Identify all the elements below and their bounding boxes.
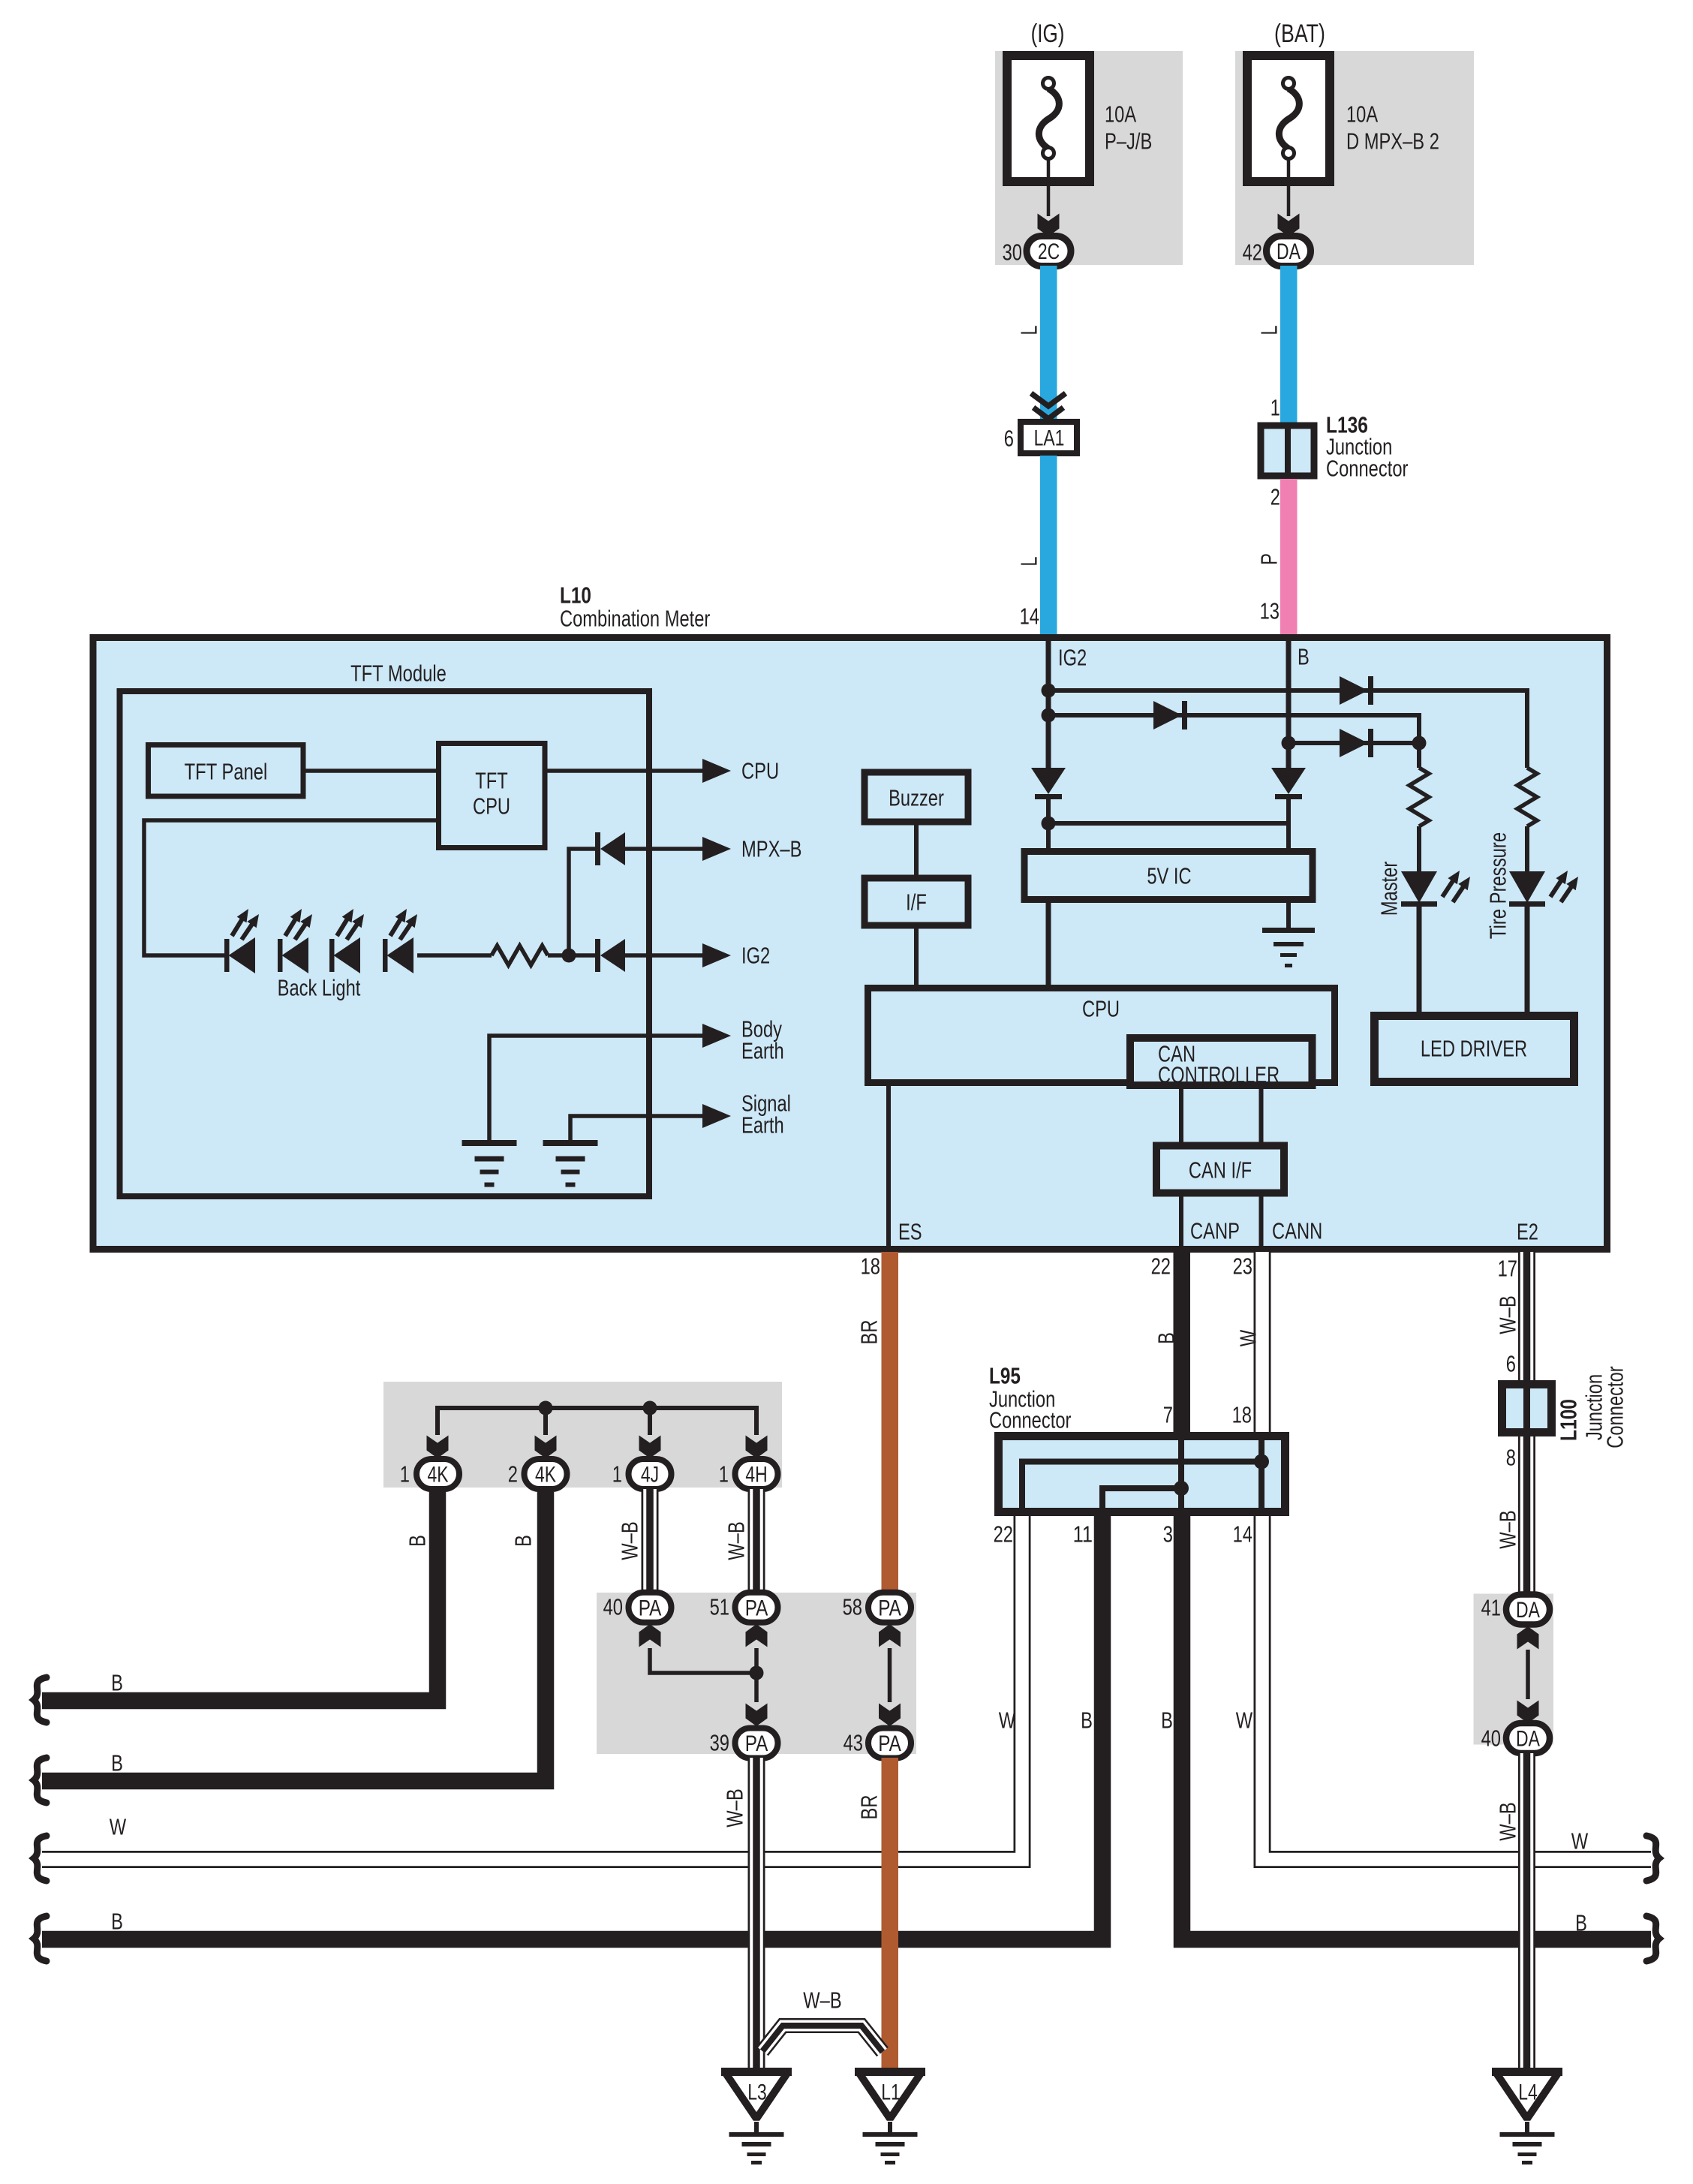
wire stub to 4J xyxy=(648,1408,652,1435)
connector terminal 4K pin1 xyxy=(416,1459,459,1489)
wire 5V IC to CPU xyxy=(1046,900,1051,986)
svg-text:L100: L100 xyxy=(1556,1399,1582,1441)
svg-text:30: 30 xyxy=(1003,239,1022,266)
wire fuse (IG) 10A P-J/B lead xyxy=(1047,158,1051,216)
wire signal earth xyxy=(570,1116,705,1140)
svg-text:22: 22 xyxy=(994,1521,1013,1548)
svg-text:40: 40 xyxy=(603,1594,623,1620)
arrow MPX-B xyxy=(702,837,731,861)
svg-text:8: 8 xyxy=(1506,1445,1516,1471)
wire tire resistor to LED xyxy=(1525,826,1529,871)
wire LED chain xyxy=(417,953,492,958)
wire W-B jog to L1 xyxy=(762,2026,883,2052)
resistor tire pressure xyxy=(1517,768,1537,826)
diode on B rail xyxy=(1340,729,1368,757)
arrow up 41 DA xyxy=(1517,1626,1539,1650)
svg-text:11: 11 xyxy=(1073,1521,1093,1548)
svg-text:40: 40 xyxy=(1481,1725,1501,1752)
wire CAN controller to CAN I/F left xyxy=(1179,1085,1183,1145)
inline splice arrows (double chevron) xyxy=(1031,393,1066,406)
cut curl W rail left xyxy=(34,1836,47,1881)
svg-text:L: L xyxy=(1256,325,1283,335)
arrow IG2 xyxy=(702,943,731,967)
arrow into connector at x=727 xyxy=(535,1436,557,1459)
svg-text:E2: E2 xyxy=(1517,1219,1538,1245)
wire 58PA to 43PA xyxy=(888,1648,892,1702)
cut curl B rail 2 xyxy=(34,1758,47,1803)
svg-text:IG2: IG2 xyxy=(1058,645,1087,671)
svg-text:W–B: W–B xyxy=(722,1788,748,1827)
wire IG2 pin line xyxy=(1046,638,1051,770)
connector terminal 4K pin2 xyxy=(525,1459,567,1489)
svg-text:L: L xyxy=(1016,556,1042,566)
svg-text:1: 1 xyxy=(400,1461,410,1488)
svg-text:L10: L10 xyxy=(560,582,591,609)
wire L (blue) from DA to L136 xyxy=(1280,266,1298,423)
svg-text:PA: PA xyxy=(639,1596,662,1620)
IC 5V xyxy=(1024,852,1313,900)
svg-text:Connector: Connector xyxy=(1602,1366,1628,1448)
arrow up 58 PA xyxy=(879,1624,901,1647)
svg-text:Combination Meter: Combination Meter xyxy=(560,606,710,632)
svg-text:14: 14 xyxy=(1233,1521,1252,1548)
ground splice L4 xyxy=(1496,2072,1559,2119)
junction connector L100 xyxy=(1502,1385,1552,1433)
svg-text:B: B xyxy=(510,1535,537,1547)
arrow up 51 PA xyxy=(746,1624,768,1647)
connector terminal 51 PA xyxy=(735,1593,778,1623)
wire B rail from 4K pin2 xyxy=(42,1489,546,1781)
svg-text:DA: DA xyxy=(1516,1727,1540,1752)
svg-text:D MPX–B 2: D MPX–B 2 xyxy=(1346,128,1439,155)
PA connector gray panel xyxy=(597,1593,916,1754)
wire W-B from 39PA to L3 xyxy=(748,1758,765,2069)
svg-text:TFT: TFT xyxy=(475,768,508,794)
wire B pin line xyxy=(1286,638,1292,770)
svg-text:B: B xyxy=(111,1670,123,1696)
wire TFT Panel to TFT CPU xyxy=(303,769,438,773)
svg-text:CPU: CPU xyxy=(1082,996,1120,1022)
wire resistor to node xyxy=(548,953,595,958)
svg-text:IG2: IG2 xyxy=(741,943,770,969)
svg-text:CPU: CPU xyxy=(473,793,510,820)
svg-text:B: B xyxy=(111,1909,123,1935)
connector gray panel 4K 4J 4H xyxy=(383,1382,782,1488)
wire buzzer to I/F xyxy=(914,822,919,878)
wire BR from 43PA to L1 xyxy=(882,1758,899,2069)
fuse block (IG) 10A P-J/B gray panel xyxy=(995,51,1183,265)
svg-text:W: W xyxy=(1235,1329,1261,1346)
wire W rail left from L95 pin22 xyxy=(42,1516,1022,1860)
wire L (blue) from LA1 to L10 pin 14 xyxy=(1040,456,1057,636)
svg-text:W–B: W–B xyxy=(1495,1295,1521,1334)
svg-text:B: B xyxy=(1153,1332,1180,1344)
node master top xyxy=(1412,736,1427,751)
svg-text:6: 6 xyxy=(1004,426,1014,452)
wire L95 internal W through xyxy=(1258,1436,1264,1512)
wire CANN inside xyxy=(1259,1193,1264,1247)
wire L95 internal B through xyxy=(1178,1436,1184,1512)
svg-text:58: 58 xyxy=(843,1594,862,1620)
cut curl B bottom left xyxy=(34,1916,47,1961)
svg-text:(IG): (IG) xyxy=(1031,20,1065,48)
CPU box xyxy=(868,988,1335,1083)
wire master branch xyxy=(1417,743,1421,768)
Buzzer box xyxy=(865,772,968,822)
wire master resistor to LED xyxy=(1417,826,1421,871)
diode IG2 down xyxy=(1031,768,1066,794)
wire ES inside xyxy=(886,1083,891,1247)
arrow CPU xyxy=(702,759,731,783)
fuse (IG) 10A P-J/B body xyxy=(1007,56,1090,182)
svg-text:L3: L3 xyxy=(747,2080,767,2105)
wire BR from ES pin 18 xyxy=(882,1252,899,1593)
svg-text:Connector: Connector xyxy=(989,1407,1071,1433)
svg-text:4J: 4J xyxy=(641,1463,659,1488)
connector terminal 4H xyxy=(735,1459,778,1489)
ground splice L3 xyxy=(725,2072,788,2119)
svg-text:W–B: W–B xyxy=(1495,1802,1521,1840)
svg-text:Master: Master xyxy=(1376,862,1403,916)
connector terminal DA xyxy=(1267,236,1311,266)
svg-text:4K: 4K xyxy=(535,1463,556,1488)
svg-text:W: W xyxy=(1571,1828,1589,1855)
svg-text:Connector: Connector xyxy=(1326,456,1408,482)
ground 5V IC xyxy=(1262,928,1315,933)
wire L95 internal W branch xyxy=(1022,1462,1261,1512)
svg-text:1: 1 xyxy=(719,1461,729,1488)
svg-text:B: B xyxy=(404,1535,431,1547)
wire mid rail xyxy=(1048,715,1419,743)
svg-text:(BAT): (BAT) xyxy=(1274,20,1325,48)
wire L95 internal B branch xyxy=(1102,1488,1181,1512)
node B pin xyxy=(1282,736,1296,751)
wire B from pin 22 to L95 xyxy=(1174,1252,1191,1432)
svg-text:B: B xyxy=(111,1750,123,1776)
arrow down 39 PA xyxy=(746,1704,768,1727)
cut curl B bottom right xyxy=(1646,1916,1659,1961)
arrow into connector (BAT) 10A D MPX-B 2 xyxy=(1278,214,1300,237)
connector terminal 43 PA xyxy=(868,1728,911,1758)
svg-text:L4: L4 xyxy=(1518,2080,1538,2105)
svg-text:P: P xyxy=(1256,553,1283,565)
connector terminal 40 PA xyxy=(629,1593,672,1623)
svg-text:W–B: W–B xyxy=(617,1521,643,1560)
svg-text:LED DRIVER: LED DRIVER xyxy=(1421,1036,1527,1062)
connector terminal 39 PA xyxy=(735,1728,778,1758)
diode to MPX-B xyxy=(595,832,600,865)
svg-text:W–B: W–B xyxy=(1495,1510,1521,1548)
svg-text:I/F: I/F xyxy=(906,889,927,916)
wire CAN controller to CAN I/F right xyxy=(1259,1085,1264,1145)
svg-text:18: 18 xyxy=(861,1253,880,1280)
svg-text:1: 1 xyxy=(612,1461,622,1488)
svg-text:L: L xyxy=(1016,325,1042,335)
junction connector L95 box xyxy=(999,1436,1286,1512)
cut curl B rail 1 xyxy=(34,1677,47,1722)
svg-text:MPX–B: MPX–B xyxy=(741,836,801,862)
fuse (BAT) 10A D MPX-B 2 body xyxy=(1247,56,1330,182)
arrow into connector at x=1008 xyxy=(746,1436,768,1459)
diode on top rail xyxy=(1340,676,1368,705)
diode B down xyxy=(1271,768,1306,794)
svg-text:B: B xyxy=(1575,1910,1587,1936)
node junction back light xyxy=(562,949,576,963)
svg-text:PA: PA xyxy=(745,1731,768,1756)
LED back light 3 xyxy=(329,939,335,972)
svg-text:B: B xyxy=(1161,1707,1173,1734)
wire stub to 4K pin2 xyxy=(543,1408,548,1435)
fuse (IG) 10A P-J/B element (S-curve) xyxy=(1039,89,1059,149)
svg-text:10A: 10A xyxy=(1105,101,1136,128)
svg-text:23: 23 xyxy=(1233,1253,1252,1280)
svg-text:ES: ES xyxy=(898,1219,922,1245)
LED tire pressure xyxy=(1509,871,1545,903)
svg-text:1: 1 xyxy=(1271,395,1280,421)
arrow Signal Earth xyxy=(702,1104,731,1128)
wire diode to IG2 arrow xyxy=(625,953,705,958)
svg-text:CANP: CANP xyxy=(1190,1218,1240,1244)
wire joining diode outputs xyxy=(1048,821,1289,826)
arrow into connector at x=583 xyxy=(427,1436,449,1459)
wire W from pin 23 to L95 xyxy=(1254,1252,1271,1432)
svg-text:B: B xyxy=(1081,1707,1093,1734)
connector terminal 41 DA xyxy=(1506,1595,1550,1625)
svg-text:P–J/B: P–J/B xyxy=(1105,128,1152,155)
svg-text:PA: PA xyxy=(878,1731,901,1756)
wire bus over 4K connectors xyxy=(438,1408,756,1435)
LED master xyxy=(1401,871,1437,903)
svg-text:CANN: CANN xyxy=(1272,1218,1322,1244)
node bus 4K2 xyxy=(539,1401,553,1415)
svg-text:Buzzer: Buzzer xyxy=(889,785,944,811)
wire CANP inside xyxy=(1179,1193,1183,1247)
svg-text:BR: BR xyxy=(856,1795,883,1820)
cut curl W rail right xyxy=(1646,1836,1659,1881)
wire B rail from 4K pin1 xyxy=(42,1489,438,1701)
svg-text:DA: DA xyxy=(1277,239,1301,264)
svg-text:Back Light: Back Light xyxy=(278,975,361,1001)
svg-text:13: 13 xyxy=(1260,598,1280,624)
wire IG2 diode to 5V IC xyxy=(1046,794,1051,851)
node 5V input xyxy=(1042,817,1056,831)
CAN I/F box xyxy=(1156,1146,1284,1193)
wire W-B from 4H xyxy=(748,1489,765,1593)
wire 51PA to 39PA xyxy=(754,1648,759,1702)
wire top rail to tire pressure xyxy=(1048,690,1527,768)
svg-text:W: W xyxy=(1236,1707,1253,1734)
svg-text:W–B: W–B xyxy=(723,1521,750,1560)
wire W rail right from L95 pin14 xyxy=(1262,1516,1651,1860)
arrow Body Earth xyxy=(702,1024,731,1048)
svg-text:42: 42 xyxy=(1243,239,1262,266)
svg-text:B: B xyxy=(1298,644,1310,670)
svg-text:W–B: W–B xyxy=(803,1987,841,2014)
svg-text:CPU: CPU xyxy=(741,758,779,784)
svg-text:2C: 2C xyxy=(1038,239,1060,264)
wire 5V IC to ground xyxy=(1286,900,1291,929)
svg-text:PA: PA xyxy=(878,1596,901,1620)
node IG2 b xyxy=(1042,708,1056,723)
LED back light 2 xyxy=(278,939,283,972)
wire P (pink) from L136 to L10 pin 13 xyxy=(1280,479,1298,636)
svg-text:5V IC: 5V IC xyxy=(1147,863,1191,889)
wire W-B from L100 to DA41 xyxy=(1518,1436,1535,1594)
wire fuse (BAT) 10A D MPX-B 2 lead xyxy=(1287,158,1291,216)
LED back light 4 xyxy=(383,939,388,972)
wire B rail to master xyxy=(1289,741,1419,745)
wire tire LED to LED driver xyxy=(1525,907,1530,1015)
svg-text:18: 18 xyxy=(1232,1402,1252,1428)
svg-text:10A: 10A xyxy=(1346,101,1378,128)
connector LA1 xyxy=(1021,422,1077,453)
svg-text:3: 3 xyxy=(1163,1521,1173,1548)
resistor back light xyxy=(492,946,548,965)
ground splice L1 xyxy=(859,2072,922,2119)
node IG2 a xyxy=(1042,684,1056,698)
arrow into connector (IG) 10A P-J/B xyxy=(1038,214,1060,237)
svg-text:Tire Pressure: Tire Pressure xyxy=(1485,832,1511,939)
LED back light 1 xyxy=(224,939,230,972)
fuse block (BAT) 10A D MPX-B 2 gray panel xyxy=(1235,51,1474,265)
svg-text:DA: DA xyxy=(1516,1598,1540,1623)
wire TFT CPU to CPU output xyxy=(545,769,705,773)
svg-text:CONTROLLER: CONTROLLER xyxy=(1158,1062,1280,1088)
connector terminal 58 PA xyxy=(868,1593,911,1623)
svg-text:Earth: Earth xyxy=(741,1112,784,1139)
arrow down 40 DA xyxy=(1517,1701,1539,1724)
wire B bottom rail right from L95 pin3 xyxy=(1182,1516,1651,1939)
svg-text:39: 39 xyxy=(710,1730,729,1756)
fuse (BAT) 10A D MPX-B 2 element (S-curve) xyxy=(1279,89,1299,149)
svg-text:TFT Panel: TFT Panel xyxy=(185,759,268,785)
svg-text:41: 41 xyxy=(1481,1595,1501,1621)
ECU L10 Combination Meter box xyxy=(93,638,1607,1250)
I/F box xyxy=(865,878,968,925)
node L95 W xyxy=(1254,1454,1269,1470)
CAN CONTROLLER box xyxy=(1130,1038,1313,1085)
svg-text:L1: L1 xyxy=(881,2080,901,2105)
wire TFT CPU to back light chain xyxy=(144,820,438,955)
resistor master xyxy=(1409,768,1429,826)
svg-text:43: 43 xyxy=(843,1730,863,1756)
connector terminal 2C xyxy=(1027,236,1071,266)
svg-text:CAN I/F: CAN I/F xyxy=(1189,1157,1252,1184)
wire 41DA to 40DA xyxy=(1526,1650,1530,1699)
svg-text:2: 2 xyxy=(508,1461,518,1488)
svg-text:7: 7 xyxy=(1163,1402,1173,1428)
svg-text:PA: PA xyxy=(745,1596,768,1620)
connector terminal 40 DA xyxy=(1506,1723,1550,1753)
svg-text:4K: 4K xyxy=(427,1463,448,1488)
svg-text:51: 51 xyxy=(710,1594,729,1620)
wire W-B from DA40 to L4 xyxy=(1518,1753,1535,2069)
TFT Module box xyxy=(120,691,650,1196)
svg-text:6: 6 xyxy=(1506,1351,1516,1377)
wire W-B from pin17 to L100 xyxy=(1518,1252,1535,1380)
svg-text:BR: BR xyxy=(856,1320,883,1345)
DA connector gray panel xyxy=(1474,1594,1554,1745)
arrow into connector at x=866 xyxy=(639,1436,661,1459)
TFT CPU box xyxy=(439,744,546,848)
arrow down 43 PA xyxy=(879,1704,901,1727)
svg-text:2: 2 xyxy=(1271,484,1280,510)
wire 40PA to node xyxy=(650,1648,756,1673)
wire W-B from 4J xyxy=(642,1489,659,1593)
wire body earth xyxy=(489,1036,705,1140)
LED DRIVER box xyxy=(1375,1016,1574,1082)
node L95 B xyxy=(1174,1481,1189,1496)
ground body earth xyxy=(462,1140,517,1146)
node bus 4J xyxy=(643,1401,657,1415)
svg-text:Earth: Earth xyxy=(741,1038,784,1064)
arrow up 40 PA xyxy=(639,1624,661,1647)
svg-text:17: 17 xyxy=(1498,1256,1517,1282)
wire L (blue) from 2C to LA1 xyxy=(1040,266,1057,423)
wire B bottom rail left from L95 pin11 xyxy=(42,1516,1102,1939)
TFT Panel box xyxy=(149,745,304,797)
svg-text:TFT Module: TFT Module xyxy=(350,660,447,687)
svg-text:L95: L95 xyxy=(989,1363,1021,1389)
svg-text:22: 22 xyxy=(1151,1253,1171,1280)
diode to IG2 xyxy=(595,939,600,972)
connector terminal 4J xyxy=(629,1459,672,1489)
wire master LED to LED driver xyxy=(1417,907,1422,1015)
wire node up to MPX-B diode xyxy=(569,849,595,955)
node PA join xyxy=(750,1666,764,1680)
svg-text:14: 14 xyxy=(1020,603,1039,630)
wire diode to MPX-B arrow xyxy=(625,847,705,851)
wire B diode to 5V IC xyxy=(1286,794,1291,851)
svg-text:4H: 4H xyxy=(745,1463,767,1488)
junction connector L136 xyxy=(1261,426,1314,476)
wire I/F to CPU xyxy=(914,925,919,986)
diode on mid rail xyxy=(1153,701,1182,730)
svg-text:LA1: LA1 xyxy=(1034,426,1065,451)
svg-text:W: W xyxy=(999,1707,1016,1734)
svg-text:W: W xyxy=(110,1814,127,1840)
ground signal earth xyxy=(543,1140,598,1146)
